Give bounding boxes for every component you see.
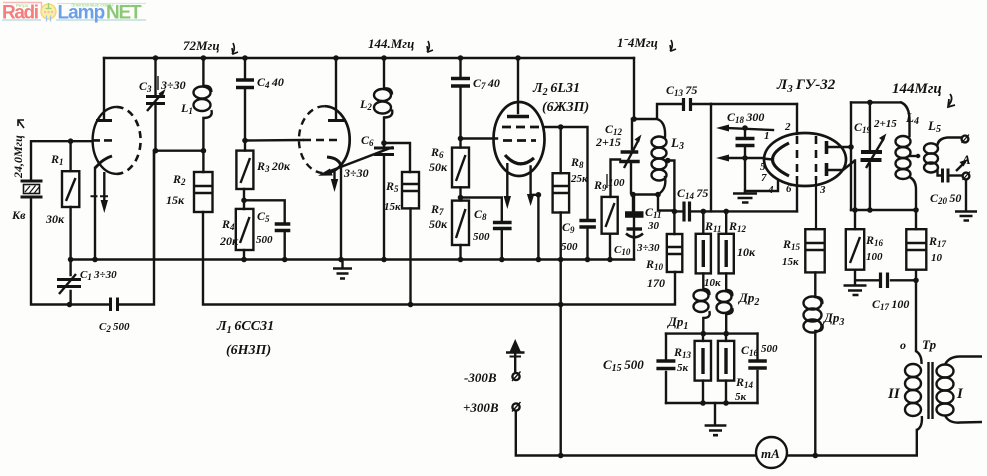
svg-text:Ретро: Ретро <box>16 3 29 8</box>
wire GU-32 bottom wire y=212 <box>711 210 797 212</box>
tube L1a grid dashes <box>93 139 112 142</box>
tube L1a heater crossbar <box>91 195 109 197</box>
tube GU-32 cathode lead <box>763 159 773 160</box>
resistor R7 50k <box>452 201 469 245</box>
wire C13 to GU-32 box <box>693 103 712 105</box>
wire C5 bottom <box>284 232 286 260</box>
wire -300V up arrow symbol <box>514 352 516 372</box>
capacitor C12 trimmer arrow <box>624 139 639 168</box>
capacitor C17 100 series plates <box>881 273 888 289</box>
wire cathode arrow wire B <box>726 157 764 159</box>
svg-text:R12: R12 <box>728 219 747 234</box>
capacitor C3 3:30 trimmer plates <box>146 97 165 104</box>
resistor R10 170 banded <box>667 234 683 272</box>
capacitor C12 2+15 trimmer plates <box>619 152 640 162</box>
node R6-R7 <box>458 195 464 201</box>
inductor L1 <box>194 87 211 99</box>
capacitor C11 30 plates <box>625 211 644 218</box>
svg-text:-300В: -300В <box>464 370 497 385</box>
capacitor C10 3:30 trimmer arc <box>626 234 643 238</box>
wire R11 leads <box>702 211 704 289</box>
resistor R17 10 banded <box>906 229 926 270</box>
svg-text:С10: С10 <box>614 244 631 257</box>
LOGO RadioLamp.NET <box>2 3 146 24</box>
ground antenna trident <box>955 212 977 221</box>
wire C18 stem <box>744 128 746 192</box>
svg-text:7: 7 <box>761 172 767 184</box>
wire R16 bottom to ground and C17 <box>855 270 916 284</box>
svg-text:R6: R6 <box>430 145 444 160</box>
tube GU-32 grid2 dashes vertical <box>796 136 799 180</box>
transformer Tr core lines <box>929 362 933 419</box>
capacitor C4 40 plates <box>236 80 254 88</box>
svg-text:144.Мгц: 144.Мгц <box>368 36 414 51</box>
wire GU-32 pin3/grid1 lead to R15 <box>815 181 817 229</box>
svg-text:Др3: Др3 <box>823 310 844 328</box>
svg-text:100: 100 <box>866 251 883 263</box>
inductor L3 <box>652 137 667 148</box>
svg-text:С1 3÷30: С1 3÷30 <box>80 269 117 282</box>
svg-text:L5: L5 <box>927 118 941 135</box>
ground under C18 <box>733 194 757 203</box>
wire R9 bend from C12 bottom <box>611 160 621 197</box>
terminal antenna bottom <box>963 173 970 180</box>
wire R1 leads <box>69 141 71 304</box>
capacitor C9 500 plates <box>579 221 596 228</box>
svg-text:R17: R17 <box>928 234 947 249</box>
svg-text:С8: С8 <box>474 207 487 222</box>
node L4 tap dot <box>916 154 920 158</box>
wire C7 branch <box>459 58 461 148</box>
svg-text:R10: R10 <box>645 257 664 272</box>
wire anode drop tube L1b <box>335 58 337 119</box>
wire C12 stem <box>631 119 632 193</box>
node dots stage2 <box>333 55 339 61</box>
svg-text:170: 170 <box>647 276 665 290</box>
ground bias block trident <box>705 426 727 436</box>
tube L2 screen grid dashes <box>502 126 539 129</box>
choke Dr3 <box>804 297 822 310</box>
svg-text:С15 500: С15 500 <box>603 357 644 374</box>
wire cathode tube L1b to bus1/ground <box>340 166 342 260</box>
wire R17 bottom to transformer <box>915 270 917 351</box>
wire R3-R4 node to C5 <box>244 189 285 222</box>
node dots GU-32 area <box>742 125 748 131</box>
resistor R12 10k vbar <box>719 234 734 274</box>
capacitor C6 3:30 trimmer plates <box>374 148 394 155</box>
svg-text:2+15: 2+15 <box>595 135 621 149</box>
svg-text:R14: R14 <box>735 375 754 390</box>
logo underline teal left <box>2 19 41 21</box>
resistor R1 30k <box>62 171 79 207</box>
wire GU-32 pin6 lead <box>796 181 798 211</box>
wire C20 to terminal <box>951 174 963 176</box>
wire C11 branch <box>633 195 635 260</box>
capacitor C1 3:30 trimmer plates <box>57 280 81 287</box>
tube GU-32 anode1 bar <box>825 141 829 154</box>
svg-text:II: II <box>887 386 901 402</box>
resistor R8 25k banded <box>553 173 570 212</box>
tube L2 heater lead 2 arrow <box>527 194 534 206</box>
inductor L4 <box>896 136 911 147</box>
svg-text:L4: L4 <box>905 110 919 127</box>
svg-text:5к: 5к <box>677 362 689 374</box>
svg-text:R13: R13 <box>673 345 692 360</box>
svg-text:50к: 50к <box>429 217 448 231</box>
svg-text:Кв: Кв <box>11 208 26 222</box>
tube L1b cathode <box>327 157 341 166</box>
svg-text:С7 40: С7 40 <box>473 76 500 91</box>
svg-text:Тр: Тр <box>922 337 937 352</box>
terminal antenna top <box>962 136 969 143</box>
wire choke Dr2 bottom <box>725 314 727 334</box>
wire R12 leads <box>725 211 727 290</box>
svg-text:(6ЖЗП): (6ЖЗП) <box>542 100 589 115</box>
svg-text:R4: R4 <box>221 217 235 232</box>
tube L1a heater lead with arrow <box>103 172 105 203</box>
svg-text:500: 500 <box>761 343 778 355</box>
svg-text:R8: R8 <box>570 155 584 170</box>
svg-text:С20 50: С20 50 <box>930 191 961 206</box>
tube L1b heater lead arrow <box>333 170 335 182</box>
svg-text:R5: R5 <box>385 179 399 194</box>
wire anode drop tube L1a <box>103 58 105 119</box>
wire R15 to choke Dr3 to bottom bus <box>814 272 816 455</box>
svg-text:2+15: 2+15 <box>873 118 897 130</box>
svg-text:30: 30 <box>647 220 660 232</box>
wire tank top <box>851 101 901 103</box>
tube GU-32 envelope <box>764 133 846 186</box>
logo tube icon anode green <box>46 3 52 9</box>
svg-text:500: 500 <box>473 231 490 243</box>
wire R9 bottom <box>609 234 611 260</box>
wire bus2 right segment y=303.5 <box>203 212 675 305</box>
wire tank left vertical <box>850 102 852 210</box>
svg-text:1ˉ4Мгц: 1ˉ4Мгц <box>617 35 658 50</box>
logo tube icon yellow circle <box>41 4 56 19</box>
wire node to L3 top and C13 feed <box>632 104 681 119</box>
antenna A arrow <box>956 162 965 171</box>
wire bias block bottom y=403 <box>666 402 758 404</box>
wire GU-32 pin4 cathode lead to ground <box>745 181 778 191</box>
wire tank bottom <box>851 209 916 211</box>
wire grid tube L2 from C7/R6 node <box>461 137 498 139</box>
wire R5 bottom to bus2 <box>409 208 411 304</box>
svg-text:R9: R9 <box>593 178 607 193</box>
svg-text:С13 75: С13 75 <box>666 83 697 98</box>
capacitor C19 2+15 split plates <box>861 152 883 160</box>
wire C16 branch <box>756 334 758 403</box>
svg-text:А: А <box>961 152 971 167</box>
svg-text:4: 4 <box>767 184 774 196</box>
svg-text:С18 300: С18 300 <box>727 110 764 125</box>
svg-text:100: 100 <box>608 177 625 189</box>
capacitor C13 75 series plates <box>684 98 691 111</box>
svg-text:1: 1 <box>764 130 770 142</box>
svg-text:R15: R15 <box>782 237 801 252</box>
svg-text:15к: 15к <box>166 193 185 207</box>
resistor R14 5k vbar <box>718 341 734 381</box>
wire C19 branch <box>869 102 871 210</box>
tube L2 anode plate <box>507 115 529 118</box>
svg-text:L1: L1 <box>180 101 193 116</box>
capacitor C18 300 plates <box>736 139 755 146</box>
svg-text:С3: С3 <box>139 79 154 94</box>
node dots tank <box>867 100 873 106</box>
svg-text:3÷30: 3÷30 <box>636 242 660 254</box>
wire tube L2 cathode to bus1 <box>531 167 539 260</box>
wire GU-32 grid2 pin2 drop <box>796 104 798 134</box>
svg-text:mA: mA <box>761 446 780 461</box>
svg-text:Л1 6СС31: Л1 6СС31 <box>216 319 274 336</box>
capacitor C3 trimmer arrow <box>147 92 163 111</box>
resistor R11 10k vbar <box>696 234 711 274</box>
svg-text:500: 500 <box>561 241 578 253</box>
wire C9 bottom <box>586 229 588 260</box>
wire bus1 grid/cathode return y=259 <box>71 258 634 260</box>
capacitor C19 trimmer arrow <box>866 138 884 168</box>
crystal KV quartz 24MHz <box>21 181 43 197</box>
wire top bus turn down to C12/L3 node <box>633 58 635 119</box>
svg-text:144Мгц: 144Мгц <box>892 81 942 97</box>
svg-text:Др2: Др2 <box>738 290 759 308</box>
svg-text:С14 75: С14 75 <box>677 186 708 201</box>
wire bus2 left segment crystal loop y=304 <box>31 198 110 305</box>
wire node C12/L3 bottom y=194.5 <box>633 195 674 211</box>
logo wire decoration pink <box>3 3 44 14</box>
wire antenna ground stem <box>965 180 967 211</box>
resistor R9 100 <box>602 197 618 234</box>
svg-text:R16: R16 <box>865 233 884 248</box>
tube GU-32 cathode bracket <box>773 143 790 176</box>
tube L2 control grid dashes <box>503 139 536 142</box>
wire tube L2 anode drop <box>517 58 519 113</box>
svg-text:24,0Мгц: 24,0Мгц <box>11 135 25 179</box>
logo top line teal right <box>57 3 146 5</box>
wire bias block top y=333.6 <box>666 332 758 334</box>
tube L1b anode plate <box>328 119 345 122</box>
svg-text:25к: 25к <box>570 173 588 185</box>
capacitor C7 40 plates <box>451 79 470 87</box>
capacitor C5 500 plates <box>275 224 291 231</box>
wire L4 bottom to R17 <box>910 177 917 229</box>
svg-text:2: 2 <box>784 121 791 133</box>
terminal -300V <box>512 373 519 380</box>
capacitor C8 500 plates <box>493 223 512 229</box>
tube L2 cathode <box>505 155 534 164</box>
choke Dr2 <box>717 291 732 302</box>
svg-text:6: 6 <box>786 183 792 195</box>
wire L4 top curve <box>901 102 910 136</box>
svg-text:30к: 30к <box>45 212 65 226</box>
resistor R16 100 <box>846 229 864 270</box>
svg-text:L3: L3 <box>670 135 684 152</box>
capacitor C1 trimmer arrow <box>59 274 76 294</box>
svg-text:R1: R1 <box>50 152 64 167</box>
svg-text:С6: С6 <box>361 133 374 148</box>
svg-text:10к: 10к <box>704 277 721 289</box>
wire L3 top curve <box>657 119 665 137</box>
svg-text:5к: 5к <box>735 391 747 403</box>
wire grid1 arrow wire A <box>726 128 773 130</box>
svg-text:Л2 6L31: Л2 6L31 <box>532 81 580 98</box>
resistor R5 15k banded <box>402 172 419 208</box>
wire anode1 lead to tank <box>827 146 852 148</box>
capacitor C14 75 series plates <box>684 202 690 222</box>
wire L2/C6 branch <box>383 58 385 260</box>
wire L3 bottom to node <box>658 177 665 195</box>
wire R14 leads <box>725 334 727 403</box>
wire R13 leads <box>702 334 704 403</box>
svg-text:15к: 15к <box>384 201 401 213</box>
resistor R15 15k banded <box>805 229 824 272</box>
tube L1a anode plate <box>96 119 112 122</box>
resistor R13 5k vbar <box>695 341 711 381</box>
svg-text:L2: L2 <box>359 97 372 112</box>
svg-text:С16: С16 <box>741 343 759 358</box>
capacitor C2 500 series plates <box>111 298 118 312</box>
svg-text:R11: R11 <box>704 219 722 234</box>
svg-text:R2: R2 <box>172 172 186 187</box>
svg-text:50к: 50к <box>429 160 448 174</box>
svg-text:о: о <box>900 338 906 352</box>
transformer Tr primary II <box>905 364 921 377</box>
transformer secondary leads <box>945 357 982 423</box>
wire bottom bus +300V y=455.5 <box>516 410 756 456</box>
wire tube L2 screen to R8/C9 <box>544 127 588 219</box>
wire choke Dr1 bottom <box>702 318 704 334</box>
wire L3 tap to C14/R10 <box>668 161 675 235</box>
svg-text:Др1: Др1 <box>667 314 688 332</box>
svg-text:С4 40: С4 40 <box>257 75 284 90</box>
wire R4 bottom <box>243 250 245 260</box>
svg-text:R3 20к: R3 20к <box>256 159 291 174</box>
svg-text:С17 100: С17 100 <box>872 297 909 312</box>
wire R16 line anode2 <box>854 161 856 230</box>
svg-text:R7: R7 <box>430 202 444 217</box>
tube L2 heater lead 1 arrow <box>506 163 508 198</box>
wire top bus 72/144MHz anode supply <box>104 57 634 59</box>
wire L5 top to terminal <box>938 138 962 145</box>
terminal +300V <box>512 403 519 410</box>
ground under R16 <box>844 286 867 296</box>
svg-text:Электронные схемы: Электронные схемы <box>71 3 114 8</box>
logo tube icon grid red dashes <box>44 11 53 13</box>
tube L2 pentode envelope <box>494 102 545 176</box>
svg-text:Л3 ГУ-32: Л3 ГУ-32 <box>776 77 836 95</box>
tube L1b triode envelope <box>324 106 349 173</box>
resistor R2 15k banded <box>194 172 213 212</box>
svg-text:+300В: +300В <box>463 400 499 415</box>
wire ground stem bias block <box>714 403 716 425</box>
wire anode2 lead to R16 line <box>827 161 856 171</box>
svg-text:10к: 10к <box>737 245 756 259</box>
wire C14 horizontal <box>674 104 711 211</box>
ground at tube L1b cathode <box>333 269 352 279</box>
node R3-R4 junction <box>241 198 247 204</box>
wire C4 branch <box>244 58 246 151</box>
meter mA circle <box>756 437 787 468</box>
wire C15 branch <box>665 334 667 403</box>
wire R5 top bend to C6 node <box>384 143 410 172</box>
resistor R4 20k <box>236 209 254 250</box>
capacitor C6 trimmer arrow to cathode <box>325 147 393 173</box>
wire L5 bottom to C20 <box>938 171 941 176</box>
wire node C3-L1 link y=150.7 <box>156 149 204 151</box>
wire L1/R2 branch <box>202 58 204 172</box>
svg-text:20к: 20к <box>219 234 239 248</box>
svg-text:С2 500: С2 500 <box>99 321 130 334</box>
node dots middle <box>630 192 636 198</box>
svg-text:72Мгц: 72Мгц <box>183 38 220 53</box>
wire R8 branch <box>560 127 562 456</box>
wire R7 bottom <box>459 245 461 260</box>
inductor L5 <box>924 143 938 153</box>
resistor R3 20k <box>236 151 253 189</box>
svg-text:3÷30: 3÷30 <box>160 78 186 92</box>
capacitor C20 50 series plates <box>943 169 949 183</box>
svg-text:500: 500 <box>256 234 273 246</box>
svg-text:3: 3 <box>819 184 826 196</box>
resistor R6 50k <box>452 148 469 188</box>
logo underline teal right <box>56 19 146 21</box>
capacitor C15 500 plates <box>656 361 675 369</box>
svg-text:10: 10 <box>931 252 943 264</box>
wire grid lead tube L1a from crystal <box>31 141 92 180</box>
transformer Tr secondary I <box>937 365 954 378</box>
tube L1a triode envelope <box>93 107 117 174</box>
inductor L2 <box>374 89 391 101</box>
wire tube L1b grid from C4/R3 node <box>245 139 303 142</box>
tube GU-32 anode2 bar <box>825 163 829 176</box>
wire R6-R7 node and C8 branch <box>461 187 502 259</box>
svg-text:15к: 15к <box>782 256 799 268</box>
svg-text:I: I <box>956 386 964 402</box>
wire C3 branch <box>154 58 156 259</box>
wire L4 tap stub <box>910 155 920 157</box>
svg-text:С9: С9 <box>562 220 575 235</box>
wire cathode lead tube L1a to bus1 <box>94 168 96 260</box>
svg-text:3÷30: 3÷30 <box>343 166 369 180</box>
logo tube icon cathode blue <box>47 16 51 22</box>
choke Dr1 <box>694 290 709 301</box>
tube GU-32 grid1 dashes vertical <box>815 136 818 180</box>
node dots stage1 <box>68 138 74 144</box>
capacitor C16 500 plates <box>748 361 767 368</box>
tube L1b grid dashes <box>303 139 337 142</box>
tube L1a cathode <box>95 156 112 168</box>
wire GU-32 grid box top <box>711 103 797 105</box>
svg-text:С5: С5 <box>257 209 270 224</box>
svg-text:(6Н3П): (6Н3П) <box>226 343 271 358</box>
